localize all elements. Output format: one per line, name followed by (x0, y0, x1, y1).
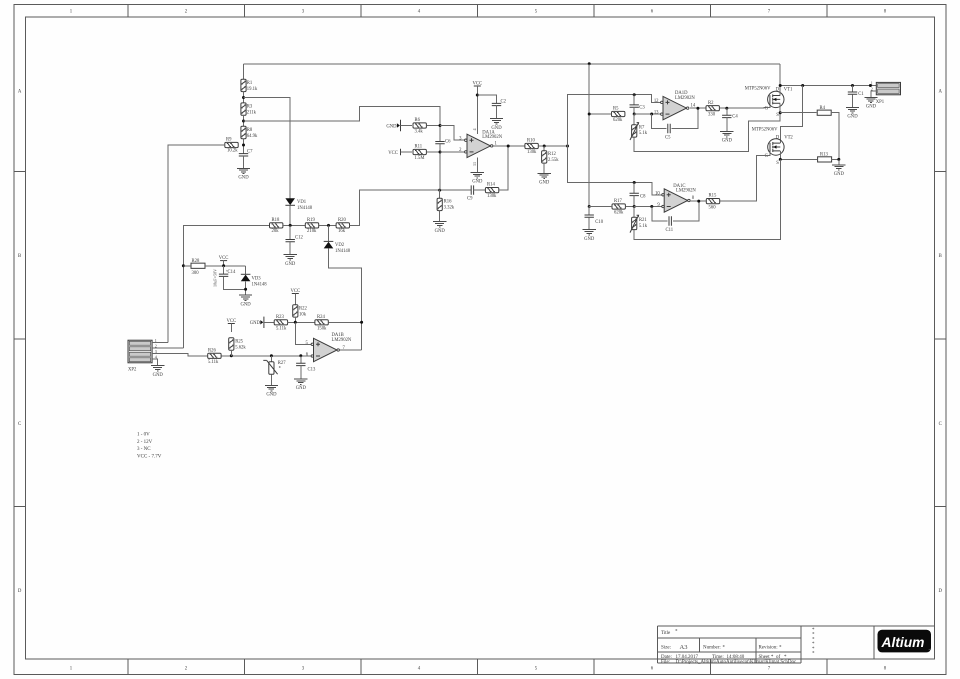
svg-text:R23: R23 (276, 315, 284, 320)
svg-text:LM2902N: LM2902N (675, 96, 695, 101)
svg-text:Title: Title (661, 631, 671, 636)
svg-text:C14: C14 (228, 270, 236, 275)
svg-text:GND: GND (472, 180, 483, 185)
svg-text:5.1k: 5.1k (639, 224, 648, 229)
wire R22 to node (294, 317, 296, 322)
resistor R15 (706, 199, 719, 204)
resistor R8 (241, 126, 246, 138)
node C3 top (633, 93, 636, 96)
svg-text:C6: C6 (445, 139, 451, 144)
svg-text:GND: GND (435, 229, 446, 234)
node R22/R23/R24/pin5 (294, 321, 297, 324)
svg-text:620k: 620k (613, 118, 623, 123)
svg-text:GND: GND (722, 139, 733, 144)
svg-text:S: S (776, 161, 779, 166)
wire R7 bottom feedback from VT1 source (634, 113, 780, 152)
svg-text:C8: C8 (640, 194, 646, 199)
svg-text:R16: R16 (444, 200, 452, 205)
node DA1C output / C11 riser (697, 200, 700, 203)
resistor R18 (270, 223, 283, 228)
svg-text:3.32k: 3.32k (444, 206, 455, 211)
svg-text:R10: R10 (527, 139, 535, 144)
capacitor C10 (588, 207, 590, 216)
svg-text:R14: R14 (487, 183, 495, 188)
svg-text:10uF×50V: 10uF×50V (213, 269, 218, 287)
svg-text:GND: GND (386, 124, 397, 129)
node VCC/C14 (222, 264, 225, 267)
svg-text:GND: GND (847, 115, 858, 120)
svg-text:1N4148: 1N4148 (297, 206, 313, 211)
wire R2 node to VT1 gate (740, 104, 770, 108)
node VCC/C2 branch (476, 94, 479, 97)
wire R14 right up to DA1A output (499, 146, 508, 190)
node C9-row / C6-column junction (438, 189, 441, 192)
wire C6 down through R11 node (439, 144, 441, 190)
svg-text:VCC: VCC (388, 151, 398, 156)
wire R2 to C4 node (719, 107, 740, 109)
svg-text:R1: R1 (247, 81, 253, 86)
svg-text:VCC - 7.7V: VCC - 7.7V (137, 454, 162, 459)
svg-text:5.11k: 5.11k (276, 327, 287, 332)
wire XP2 pin3 to DA1B pin6 (152, 354, 311, 356)
svg-text:R3: R3 (247, 105, 253, 110)
svg-text:130k: 130k (487, 194, 497, 199)
node R1/R3 junction (242, 96, 245, 99)
resistor R20 (336, 223, 349, 228)
resistor R3 (241, 103, 246, 115)
wire R3-R8 (243, 115, 245, 126)
svg-text:130k: 130k (527, 150, 537, 155)
svg-text:B: B (939, 254, 942, 259)
ground below C10 (583, 230, 596, 235)
svg-text:R24: R24 (317, 315, 325, 320)
node R5 left (588, 113, 591, 116)
wire R8-C7 (243, 139, 245, 154)
wire R28 to VD3 (183, 265, 191, 267)
svg-text:1.5M: 1.5M (415, 156, 426, 161)
svg-text:R26: R26 (208, 348, 216, 353)
capacitor C3 (series) (633, 95, 635, 105)
svg-text:A3: A3 (680, 644, 688, 651)
capacitor C9 (series) (471, 185, 473, 194)
svg-text:64.9k: 64.9k (247, 134, 258, 139)
svg-text:.: . (929, 647, 930, 652)
wire XP2 pin4 to GND (152, 359, 158, 366)
svg-text:Number:: Number: (703, 646, 721, 651)
svg-text:R19: R19 (307, 218, 315, 223)
wire DA1D output (690, 107, 706, 109)
wire C14 bottom to VD3 bottom (224, 276, 246, 289)
wire DA1A output (493, 145, 525, 147)
resistor R5 (612, 111, 625, 116)
capacitor C8 (series) (633, 183, 635, 194)
svg-text:C: C (18, 422, 21, 427)
node R8/R9/C7 junction (242, 144, 245, 147)
ground below C4 (720, 131, 733, 136)
svg-text:VD1: VD1 (297, 200, 307, 205)
svg-text:XP2: XP2 (128, 367, 137, 372)
node XP1 pin1 (869, 84, 872, 87)
node R5/C3/R7 (633, 113, 636, 116)
wire node to pin5 (295, 322, 311, 344)
svg-text:C5: C5 (665, 136, 671, 141)
resistor R9 (225, 142, 238, 147)
capacitor C13 (300, 356, 302, 364)
svg-text:GND: GND (296, 386, 307, 391)
node C13 (299, 354, 302, 357)
wire DA1C output (690, 200, 706, 202)
svg-text:GND: GND (285, 262, 296, 267)
svg-text:C7: C7 (247, 150, 253, 155)
svg-text:2 - 12V: 2 - 12V (137, 440, 153, 445)
svg-text:GND: GND (584, 237, 595, 242)
svg-text:C11: C11 (666, 228, 674, 233)
node R6 right junction (439, 124, 442, 127)
node DA1D output / C5 riser (696, 107, 699, 110)
capacitor C7 (239, 154, 248, 156)
wire C11 feedback path (652, 207, 668, 222)
wire XP2 pin1 stub (152, 342, 168, 344)
svg-text:A: A (938, 90, 942, 95)
node R17/C8/R21 (633, 205, 636, 208)
svg-text:5.62k: 5.62k (235, 346, 246, 351)
svg-text:C: C (939, 422, 942, 427)
wire R25 to node (230, 350, 232, 356)
diode VD3 1N4148 (245, 266, 247, 275)
svg-text:MTP52N06V: MTP52N06V (752, 127, 778, 132)
svg-text:620k: 620k (614, 211, 624, 216)
node top rail / left sense rail (588, 62, 591, 65)
wire VT1 drain to top rail corner (779, 64, 781, 96)
ground below R16 (433, 222, 446, 227)
wire node to VD2 (328, 225, 330, 241)
capacitor C14 polarized 10uFx50V (223, 266, 225, 274)
wire C4-GND (726, 118, 728, 132)
node R25/R26 (230, 354, 233, 357)
diode VD2 1N4148 (324, 240, 334, 242)
trimmer resistor R7 (633, 114, 635, 125)
svg-text:3 - NC: 3 - NC (137, 447, 151, 452)
svg-text:R6: R6 (415, 118, 421, 123)
svg-text:R18: R18 (272, 218, 280, 223)
resistor R19 (305, 223, 318, 228)
capacitor C11 (series) (669, 216, 671, 225)
resistor R4 (817, 110, 831, 115)
node pin9 / C11 feedback (650, 205, 653, 208)
resistor R10 (525, 143, 538, 148)
svg-text:1: 1 (155, 338, 157, 343)
wire VD3 to GND node (245, 281, 247, 295)
note pin functions (137, 433, 162, 460)
wire VT2 gate from R15 (719, 152, 770, 201)
svg-text:12: 12 (654, 99, 659, 104)
wire GND port to R23 (264, 321, 275, 323)
wire C5 feedback path (652, 114, 667, 129)
svg-text:R2: R2 (708, 101, 714, 106)
svg-text:R27: R27 (278, 361, 286, 366)
ground below C13 (294, 379, 307, 384)
node DA1A output / R14 riser (507, 145, 510, 148)
svg-text:GND: GND (866, 105, 877, 110)
resistor R11 (413, 149, 426, 154)
svg-text:D: D (18, 589, 22, 594)
wire R19-R20 (319, 224, 336, 226)
svg-text:150k: 150k (317, 327, 327, 332)
title block (658, 626, 935, 663)
wire R5 left to sense rail (589, 113, 611, 115)
svg-text:LM2902N: LM2902N (332, 338, 352, 343)
svg-text:C2: C2 (501, 99, 507, 104)
capacitor C2 (492, 103, 501, 105)
ground below C1 (846, 108, 859, 113)
svg-text:10.2k: 10.2k (227, 149, 238, 154)
svg-text:B: B (18, 254, 21, 259)
svg-text:1N4148: 1N4148 (252, 283, 268, 288)
wire R16-GND (439, 211, 441, 222)
node distribution column top (566, 145, 569, 148)
wire R13 right node (832, 158, 839, 160)
wire DA1B output to feedback column (339, 349, 361, 351)
svg-text:300: 300 (192, 271, 200, 276)
svg-text:C10: C10 (595, 220, 603, 225)
wire VT1 source to R4 (780, 112, 816, 114)
node R17 left (588, 205, 591, 208)
wire VT2 drain branch (780, 86, 802, 144)
svg-text:11: 11 (472, 162, 477, 166)
wire VT1 source (779, 103, 781, 112)
wire R17 to node (589, 206, 612, 208)
node R3/R8 junction (242, 120, 245, 123)
ground below R27 (265, 385, 278, 390)
node VT2 source (779, 158, 782, 161)
node pin13 / C5 feedback (650, 113, 653, 116)
wire C9 to R14 (474, 189, 486, 191)
svg-text:R28: R28 (192, 259, 200, 264)
ground below DA1A pin 11 (471, 173, 484, 178)
svg-text:19.1k: 19.1k (247, 87, 258, 92)
svg-text:File:: File: (661, 660, 670, 665)
resistor R1 (241, 79, 246, 91)
svg-text:R12: R12 (548, 152, 556, 157)
svg-text:10k: 10k (299, 312, 307, 317)
wire R1 top stem (243, 64, 245, 79)
wire junction to pin3 (440, 126, 465, 141)
capacitor C4 (726, 108, 728, 115)
wire node to pin13 (634, 113, 660, 115)
svg-text:3.4k: 3.4k (415, 129, 424, 134)
capacitor C1 (852, 86, 854, 93)
resistor R24 (315, 320, 328, 325)
ground below C7 (237, 168, 250, 173)
wire R9 left to XP2 pin1 riser (168, 145, 225, 343)
svg-text:LM2902N: LM2902N (676, 189, 696, 194)
svg-text:GND: GND (834, 172, 845, 177)
svg-text:R17: R17 (614, 199, 622, 204)
ground below C12 (284, 255, 297, 260)
resistor R17 (612, 204, 625, 209)
wire C10-GND (588, 217, 590, 229)
wire GND port to R6 (401, 125, 413, 127)
wire XP2 pin2 riser to R18 (183, 225, 269, 348)
node R27 (270, 354, 273, 357)
ground below R12 (538, 173, 551, 178)
svg-text:R21: R21 (639, 218, 647, 223)
svg-text:R20: R20 (338, 218, 346, 223)
resistor R25 (229, 338, 234, 350)
svg-text:5.11k: 5.11k (208, 360, 219, 365)
node VT2 drain branch (801, 84, 804, 87)
capacitor C5 (series) (668, 124, 670, 133)
ground below VD3 (239, 295, 252, 300)
svg-text:14: 14 (691, 103, 696, 108)
svg-text:Size:: Size: (661, 646, 671, 651)
wire R24 right to feedback column (328, 321, 361, 323)
svg-text:20k: 20k (272, 229, 280, 234)
capacitor C12 (289, 225, 291, 239)
trimmer resistor R21 (633, 207, 635, 218)
wire R20 right up to C9 row (350, 190, 472, 225)
op-amp DA1D LM2902N (663, 96, 687, 119)
svg-text:560: 560 (709, 205, 717, 210)
svg-text:VT1: VT1 (784, 88, 793, 93)
wire C1-GND (852, 94, 854, 107)
svg-text:MTP52N06V: MTP52N06V (745, 87, 771, 92)
node R4/R13 (837, 158, 840, 161)
svg-text:GND: GND (153, 373, 164, 378)
connector XP2 (128, 340, 152, 363)
wire R13 left to VT2 source (780, 158, 817, 160)
svg-text:1 - 0V: 1 - 0V (137, 433, 150, 438)
wire VD2 anode to feedback column (329, 248, 362, 350)
wire XP1 pin2 to GND (871, 91, 876, 97)
wire XP2 pin2 stub (152, 347, 183, 349)
node R11 right junction (439, 151, 442, 154)
svg-text:GND: GND (266, 393, 277, 398)
svg-text:330: 330 (708, 112, 716, 117)
connector XP1 (876, 82, 900, 94)
svg-text:A: A (18, 90, 22, 95)
node VD3/C14 ground (244, 288, 247, 291)
resistor R28 (191, 263, 205, 268)
resistor R6 (413, 123, 426, 128)
svg-text:R22: R22 (299, 306, 307, 311)
svg-text:GND: GND (238, 176, 249, 181)
wire C13-GND (300, 366, 302, 379)
wire distribution column to DA1C input row (568, 146, 663, 195)
node R2/C4 (725, 107, 728, 110)
svg-text:3: 3 (155, 349, 157, 354)
node XP2 pin2 riser / R28 (182, 264, 185, 267)
svg-text:C9: C9 (467, 197, 473, 202)
svg-text:2: 2 (155, 343, 157, 348)
svg-text:XP1: XP1 (876, 100, 885, 105)
svg-text:R15: R15 (709, 194, 717, 199)
wire node to pin9 (634, 206, 662, 208)
node drain rail at VT1 (779, 84, 782, 87)
wire C7-GND (243, 156, 245, 168)
svg-text:R9: R9 (226, 138, 232, 143)
diode VD1 1N4148 (285, 198, 295, 205)
wire R23-R24 through node (288, 321, 316, 323)
wire C12-GND (289, 242, 291, 255)
wire node to GND (838, 159, 840, 164)
wire VD1 to row junction (289, 205, 291, 225)
wire VCC port to R11 (401, 151, 413, 153)
svg-text:Revision:: Revision: (759, 646, 778, 651)
svg-text:VD3: VD3 (252, 277, 262, 282)
svg-text:D:\Projects_Altium\AutoAntiliv: D:\Projects_Altium\AutoAntilivecot\Klima… (676, 660, 797, 665)
svg-text:LM2902N: LM2902N (482, 135, 502, 140)
ground below XP1 pin2 (864, 97, 877, 102)
wire VT2 source to R21 bottom (current sense feedback) (634, 159, 780, 239)
svg-text:R5: R5 (613, 107, 619, 112)
svg-text:R11: R11 (415, 145, 423, 150)
wire top rail from R1 to VT1 drain (244, 63, 781, 65)
resistor R23 (274, 320, 287, 325)
resistor R16 (439, 190, 441, 198)
svg-text:S: S (776, 113, 779, 118)
node R24 / feedback column (360, 321, 363, 324)
resistor R2 (706, 106, 719, 111)
svg-text:5.1k: 5.1k (639, 131, 648, 136)
svg-text:D: D (938, 589, 942, 594)
svg-text:R25: R25 (235, 340, 243, 345)
pin 11 stem and label (476, 158, 478, 173)
thermistor R27 (270, 356, 272, 362)
svg-text:GND: GND (539, 181, 550, 186)
wire R6 to junction (426, 125, 440, 127)
svg-text:Altium: Altium (881, 635, 925, 650)
svg-text:C1: C1 (858, 92, 864, 97)
wire left sense rail (588, 64, 590, 215)
wire junction to VD1 column (244, 98, 291, 199)
wire R18-R19 (283, 224, 305, 226)
svg-text:1N4148: 1N4148 (335, 249, 351, 254)
wire C2-GND (496, 106, 498, 119)
svg-text:R8: R8 (247, 128, 253, 133)
wire R11 to junction (426, 151, 440, 153)
svg-text:10: 10 (655, 191, 660, 196)
node R19/R20/VD2 (327, 224, 330, 227)
svg-text:GND: GND (250, 321, 261, 326)
svg-text:211k: 211k (247, 111, 257, 116)
wire R27-GND (270, 374, 272, 385)
ground below R13 (832, 165, 845, 170)
svg-text:C4: C4 (732, 114, 738, 119)
op-amp DA1C LM2902N (664, 189, 688, 212)
wire VCC to C2 (477, 95, 496, 103)
svg-text:16k: 16k (338, 229, 346, 234)
wire R1-R3 (243, 92, 245, 103)
svg-text:R4: R4 (820, 106, 826, 111)
wire R4 right down to R13 (831, 113, 839, 160)
svg-text:R13: R13 (820, 153, 828, 158)
Altium logo (878, 630, 932, 653)
resistor R26 (208, 353, 221, 358)
op-amp DA1B LM2902N (314, 338, 338, 361)
transistor VT1 MTP52N06V MOSFET (768, 91, 784, 107)
svg-text:VD2: VD2 (335, 243, 345, 248)
svg-text:C3: C3 (639, 106, 645, 111)
wire R10 to R12 node (538, 145, 567, 147)
resistor R14 (485, 188, 498, 193)
wire distribution column to DA1D input row (568, 95, 661, 146)
capacitor C6 (series in column) (435, 142, 444, 144)
wire VT2 source (779, 151, 781, 160)
wire junction to C6 column (DA1A input) (244, 106, 441, 141)
node C8 top (633, 181, 636, 184)
svg-text:VT2: VT2 (784, 135, 793, 140)
